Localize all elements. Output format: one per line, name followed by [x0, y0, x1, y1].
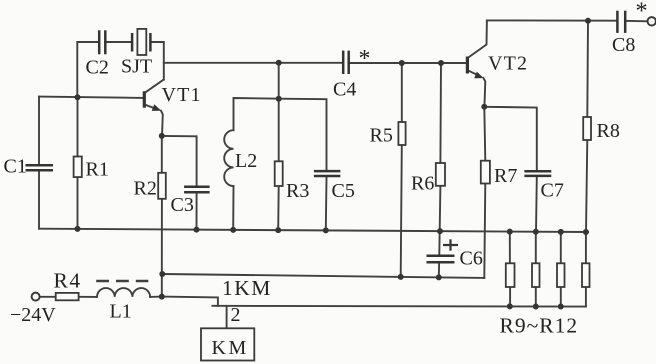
svg-text:C4: C4 — [333, 79, 356, 101]
svg-text:VT2: VT2 — [488, 53, 528, 75]
svg-text:C7: C7 — [541, 180, 564, 202]
svg-text:C5: C5 — [332, 180, 355, 202]
svg-text:R3: R3 — [286, 180, 309, 202]
svg-text:R5: R5 — [370, 125, 393, 147]
svg-text:*: * — [636, 0, 648, 24]
svg-text:C6: C6 — [460, 248, 483, 270]
svg-text:1KM: 1KM — [222, 276, 272, 300]
svg-text:VT1: VT1 — [162, 84, 202, 106]
svg-text:L2: L2 — [235, 150, 257, 172]
svg-text:C2: C2 — [86, 57, 109, 79]
svg-text:R9~R12: R9~R12 — [500, 314, 579, 338]
svg-text:C3: C3 — [171, 194, 194, 216]
svg-text:R4: R4 — [54, 269, 82, 293]
svg-text:R2: R2 — [134, 178, 157, 200]
svg-text:KM: KM — [212, 337, 249, 359]
svg-text:R6: R6 — [411, 173, 434, 195]
svg-text:C1: C1 — [4, 156, 27, 178]
svg-text:*: * — [359, 46, 371, 72]
svg-text:R1: R1 — [86, 159, 109, 181]
svg-text:2: 2 — [231, 304, 241, 326]
svg-text:R8: R8 — [597, 120, 620, 142]
svg-text:−24V: −24V — [10, 304, 56, 326]
svg-text:R7: R7 — [494, 165, 517, 187]
svg-text:L1: L1 — [110, 301, 132, 323]
svg-text:SJT: SJT — [121, 56, 152, 78]
svg-text:C8: C8 — [612, 34, 635, 56]
